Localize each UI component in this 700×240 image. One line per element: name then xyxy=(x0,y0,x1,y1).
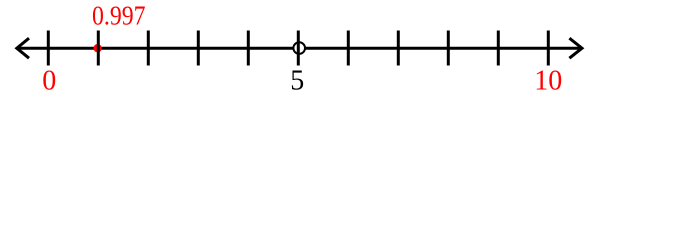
svg-text:10: 10 xyxy=(534,66,562,97)
right arrowhead xyxy=(569,38,582,58)
tick 9 xyxy=(497,31,500,66)
tick 3 xyxy=(197,31,200,66)
tick 0 xyxy=(47,31,50,66)
tick 2 xyxy=(147,31,150,66)
left arrowhead xyxy=(17,38,29,58)
open circle at 5 xyxy=(293,42,305,54)
tick 1 xyxy=(97,31,100,66)
tick 6 xyxy=(347,31,350,66)
tick 7 xyxy=(397,31,400,66)
svg-text:0.997: 0.997 xyxy=(92,1,146,31)
plotted point 0.997 (red dot) xyxy=(93,44,101,52)
tick 8 xyxy=(447,31,450,66)
tick 5 xyxy=(297,31,300,66)
tick 4 xyxy=(247,31,250,66)
svg-text:5: 5 xyxy=(290,66,304,97)
number line axis xyxy=(17,47,581,50)
tick 10 xyxy=(547,31,550,66)
svg-text:0: 0 xyxy=(42,66,56,97)
